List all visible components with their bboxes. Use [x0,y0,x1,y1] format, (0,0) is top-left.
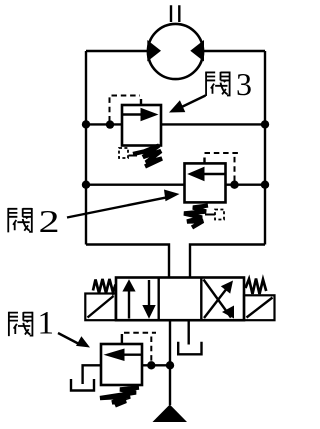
directional valve DV1 body [116,278,244,321]
DV1 left box down arrow [148,280,150,306]
wire port T down [187,320,189,344]
wire loop bottom right to port B [190,245,265,278]
motor drain lines [171,5,179,22]
wire valve3 output [161,123,265,125]
valve V1 arrow [122,354,141,356]
tank T2 [178,342,201,355]
valve V2 pilot line [234,156,236,181]
svg-text:2: 2 [39,205,60,240]
valve V1 output wire [142,364,170,366]
DV1 divider right [200,278,202,321]
motor left triangle [147,40,161,62]
pressure source triangle [153,405,188,423]
wire loop bottom left to port A [86,245,169,278]
node valve2 right rail [261,181,269,189]
node valve2 pilot [230,181,238,189]
valve V1 spring [100,388,139,406]
wire motor right [203,50,265,52]
wire right rail [264,51,266,245]
label arrow 1 [58,333,80,345]
label 閥2 [8,208,32,232]
svg-text:1: 1 [38,306,55,342]
svg-text:3: 3 [236,66,252,102]
node valve3 right rail [261,120,269,128]
wire left rail [85,51,87,245]
node valve3 left rail [82,120,90,128]
relief valve V2 body [185,163,226,202]
relief valve V1 body [101,344,142,385]
valve V2 arrow [202,173,225,175]
valve V3 drain box [119,148,128,158]
DV1 left solenoid [85,294,115,321]
node valve2 left rail [82,181,90,189]
node valve3 pilot [106,120,114,128]
wire valve2 input [86,183,185,185]
DV1 right box cross arrow 1 [204,290,226,319]
valve V1 input wire to tank [83,365,101,384]
wire valve3 input [86,123,122,125]
wire motor left [86,50,148,52]
hydraulic motor M1 circle [148,24,203,79]
DV1 right solenoid [244,295,275,320]
label arrow 3 [179,96,206,109]
node valve1 pilot [147,361,155,369]
label arrow 2 [67,196,172,217]
valve V3 arrow [123,113,143,115]
wire port P down [169,320,171,405]
motor right triangle [190,40,204,62]
valve V2 drain box [215,210,224,220]
relief valve V3 body [122,105,161,146]
valve V2 spring [205,214,215,216]
valve V3 spring [129,155,138,157]
valve V3 pilot line [109,97,111,122]
valve V1 pilot line [121,334,123,345]
DV1 left spring [93,279,116,293]
DV1 right box cross arrow 2 [204,280,232,318]
label 閥1 [9,312,33,336]
DV1 left box up arrow [128,291,130,319]
node P line [166,361,174,369]
label 閥3 [206,72,230,96]
DV1 divider left [157,278,159,321]
tank T1 [71,379,94,391]
wire valve2 output [226,183,266,185]
DV1 right spring [246,279,267,295]
